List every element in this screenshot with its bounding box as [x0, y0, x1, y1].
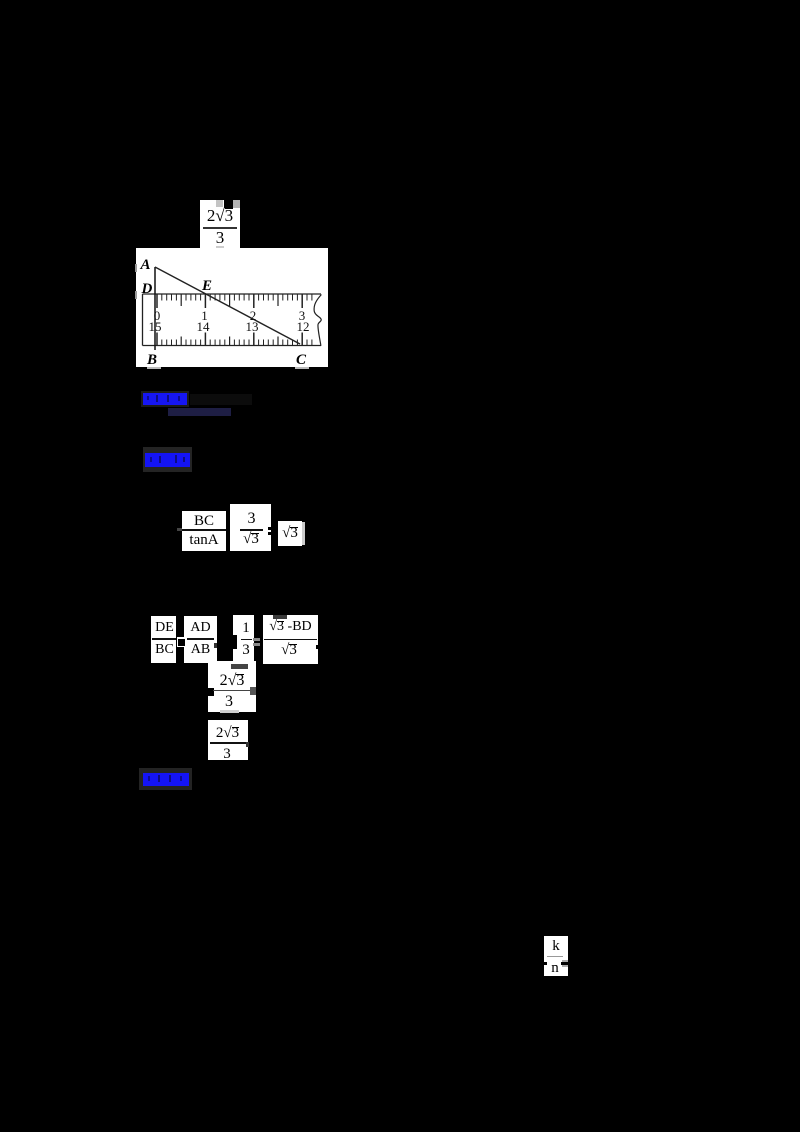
ticks top [157, 294, 312, 346]
svg-text:B: B [146, 352, 157, 367]
ruler outline [143, 293, 322, 295]
svg-text:13: 13 [246, 319, 259, 334]
svg-text:15: 15 [149, 319, 162, 334]
squiggle break [314, 295, 321, 346]
navy underline bar [168, 408, 231, 416]
vertical AB [154, 267, 156, 350]
svg-text:12: 12 [297, 319, 310, 334]
svg-text:14: 14 [197, 319, 211, 334]
svg-text:C: C [296, 352, 307, 367]
svg-text:A: A [140, 257, 151, 273]
numbers bottom [149, 319, 310, 334]
diagonal AC [155, 267, 300, 344]
svg-text:E: E [201, 278, 212, 294]
numbers top [154, 308, 306, 323]
svg-text:D: D [141, 281, 153, 297]
